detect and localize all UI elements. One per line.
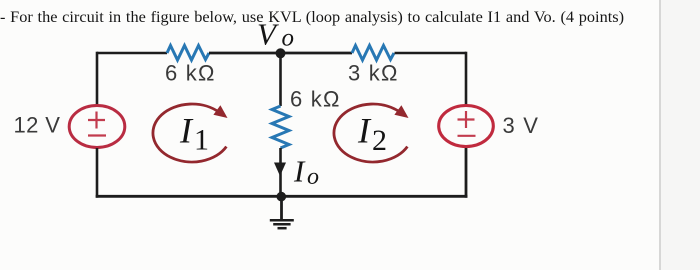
mesh current arrow I1 bbox=[153, 104, 228, 162]
wire left vertical upper bbox=[96, 52, 99, 107]
label 6 kOhm (middle) bbox=[290, 87, 341, 112]
wire top-left segment bbox=[97, 52, 167, 55]
junction dot at ground node bbox=[277, 192, 287, 202]
label 12 V bbox=[14, 113, 61, 138]
mesh current arrow I2 bbox=[334, 104, 409, 162]
svg-text:I: I bbox=[357, 111, 372, 151]
node junction dot at Vo bbox=[276, 48, 286, 58]
voltage source V1 12V bbox=[69, 106, 125, 148]
svg-text:o: o bbox=[282, 25, 295, 52]
node Vo label bbox=[257, 17, 294, 52]
resistor R3 6k middle (vertical) bbox=[272, 106, 289, 148]
wire right vertical upper bbox=[465, 52, 468, 107]
right page-edge strip bbox=[660, 0, 700, 270]
right page-edge line bbox=[659, 0, 661, 270]
svg-text:6 kΩ: 6 kΩ bbox=[165, 61, 216, 86]
svg-text:1: 1 bbox=[194, 124, 209, 157]
svg-text:6 kΩ: 6 kΩ bbox=[290, 87, 341, 112]
wire right vertical lower bbox=[465, 148, 468, 198]
wire bottom bbox=[96, 195, 468, 198]
label 6 kOhm (top-left) bbox=[165, 61, 216, 86]
svg-text:3 V: 3 V bbox=[503, 113, 540, 138]
svg-text:V: V bbox=[257, 17, 279, 52]
problem statement text bbox=[0, 7, 624, 27]
label Io bbox=[293, 154, 319, 191]
svg-text:12 V: 12 V bbox=[14, 113, 61, 138]
wire top-middle segment bbox=[209, 52, 352, 55]
svg-text:I: I bbox=[179, 111, 194, 151]
label 3 kOhm bbox=[348, 61, 399, 86]
svg-text:I: I bbox=[293, 154, 306, 189]
svg-text:3 kΩ: 3 kΩ bbox=[348, 61, 399, 86]
svg-text:o: o bbox=[307, 164, 319, 190]
label I1 bbox=[179, 111, 209, 157]
resistor R2 3k top-right bbox=[352, 46, 394, 61]
label I2 bbox=[357, 111, 387, 158]
wire middle vertical upper bbox=[279, 53, 282, 106]
ground symbol bbox=[270, 197, 294, 229]
label 3 V bbox=[503, 113, 540, 138]
wire middle vertical lower bbox=[279, 148, 282, 197]
svg-text:2: 2 bbox=[372, 124, 387, 157]
resistor R1 6k top-left bbox=[167, 46, 209, 61]
current arrow Io (arrowhead on middle branch) bbox=[274, 163, 286, 177]
voltage source V2 3V bbox=[439, 106, 494, 147]
wire left vertical lower bbox=[96, 148, 99, 198]
wire top-right segment bbox=[395, 52, 467, 55]
